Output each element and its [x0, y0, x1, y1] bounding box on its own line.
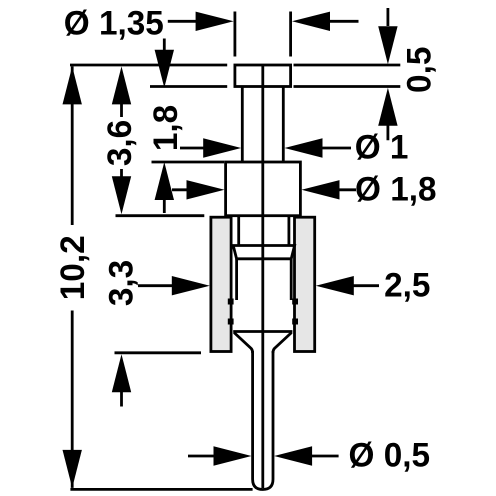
extension line y=352.8 left [115, 351, 202, 354]
arrow Ø1,8 right [187, 180, 225, 199]
funnel top line [233, 330, 292, 333]
dim line 3,6 vertical [120, 98, 123, 178]
pin collar block (Ø1,8) [226, 162, 301, 216]
press-fit upper body left edge [237, 216, 240, 246]
pin shaft left edge (Ø1) [241, 87, 244, 163]
extension line y=215.7 left [116, 214, 205, 217]
arrow 3,3 up [112, 354, 131, 392]
svg-text:2,5: 2,5 [384, 267, 430, 304]
dim 0,5 stubs [386, 8, 389, 140]
baseline y=488.5 bottom [70, 488, 252, 491]
svg-text:1,8: 1,8 [148, 105, 185, 151]
arrow Ø1 right [203, 138, 241, 157]
plate left (insulator body half) [211, 217, 231, 351]
svg-text:0,5: 0,5 [401, 47, 438, 93]
dim Ø1,8 tails [172, 188, 356, 191]
arrow Ø1,35 right [196, 12, 234, 31]
arrow Ø1,8 left [302, 180, 340, 199]
press-fit mid body left edge [235, 259, 238, 300]
dim Ø1 tails [180, 147, 351, 150]
arrow 10,2 down [63, 450, 82, 488]
press-fit crown trapezoid [233, 246, 294, 259]
barb tab upper left [228, 299, 234, 305]
arrow Ø0,5 left [274, 446, 312, 465]
svg-text:Ø 1,35: Ø 1,35 [64, 5, 164, 42]
svg-text:3,6: 3,6 [102, 120, 139, 166]
barb tab upper right [292, 299, 298, 305]
arrow 2,5 left [316, 276, 354, 295]
arrow 3,6 down [112, 176, 131, 214]
extension stub above head right [289, 12, 292, 57]
extension stub above head left [233, 12, 236, 57]
extension line y=65 left [70, 64, 227, 67]
arrow 0,5 up [378, 88, 397, 126]
arrow 1,8 up [155, 162, 174, 200]
dim Ø0,5 tails [188, 455, 339, 458]
arrow 0,5 down [378, 26, 397, 64]
extension line y=65 right [294, 64, 401, 67]
svg-text:10,2: 10,2 [55, 235, 92, 300]
dim line 10,2 vertical [71, 66, 74, 488]
funnel taper to bottom pin [234, 333, 292, 354]
extension line y=162 left [152, 161, 225, 164]
centerline of contact [261, 65, 264, 488]
svg-text:3,3: 3,3 [103, 260, 140, 306]
arrow Ø1,35 left [292, 12, 330, 31]
svg-text:Ø 0,5: Ø 0,5 [349, 437, 430, 474]
dim 1,8 stubs [163, 39, 166, 214]
dim 3,3 stub [120, 392, 123, 407]
arrow Ø0,5 right [214, 446, 252, 465]
extension line y=86.5 left [150, 85, 227, 88]
pin head (Ø1,35 top flange) [235, 65, 291, 87]
press-fit mid body right edge [290, 259, 293, 300]
arrow Ø1 left [285, 138, 323, 157]
barb tab lower left [228, 319, 234, 325]
arrow 1,8 down [155, 50, 174, 88]
dim 2,5 tails [138, 284, 379, 287]
svg-text:Ø 1: Ø 1 [355, 129, 409, 166]
arrow 3,6 up [112, 66, 131, 104]
extension line y=86.5 right [294, 85, 401, 88]
svg-text:Ø 1,8: Ø 1,8 [355, 171, 436, 208]
arrow 10,2 up [63, 66, 82, 104]
barb tab lower right [292, 319, 298, 325]
dim Ø1,35 tails [168, 20, 359, 23]
plate right (insulator body half) [295, 217, 315, 351]
arrow 2,5 right [172, 276, 210, 295]
pin shaft right edge (Ø1) [282, 87, 285, 163]
bottom pin (Ø0,5) with rounded tip [253, 351, 273, 490]
press-fit upper body right edge [287, 216, 290, 246]
